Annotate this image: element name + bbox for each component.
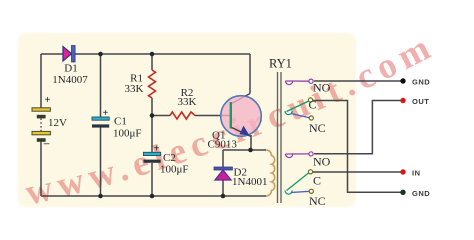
svg-text:GND: GND [412,189,430,198]
junction node: R1 / R2 / C2 [150,113,155,118]
wire: D2 bottom stub [222,180,224,196]
wire: R1 top stub [151,54,153,70]
relay contact group 1: NC terminal circle [309,116,313,120]
relay contact group 1: NO pivot arc [286,81,293,85]
resistor R2 [170,112,195,119]
svg-text:1N4007: 1N4007 [52,74,88,86]
relay coil RY1 [266,150,275,196]
capacitor C2 [144,152,161,163]
wire: left vertical battery top to top rail [40,54,42,108]
wire: OUT terminal to relay NO2 [314,101,401,154]
svg-text:–: – [43,138,50,150]
junction node: ground rail / C1 [98,194,103,199]
terminal GND (top) [400,78,405,83]
junction node: emitter / coil rail [248,148,253,153]
wire: emitter vertical [250,135,252,150]
svg-text:IN: IN [412,169,421,178]
relay contact group 2: green lever to C [287,173,309,191]
wire: C2 branch upper [151,116,153,153]
svg-text:NO: NO [313,155,331,169]
schematic cream background [18,33,356,207]
relay contact group 2: NO pivot arc [286,154,293,158]
relay contact group 1: NO lever [286,80,310,82]
svg-text:100μF: 100μF [160,164,189,176]
junction node: top rail / R1 [150,52,155,57]
svg-text:33K: 33K [178,96,197,108]
relay contact group 1: C terminal circle [308,98,312,102]
svg-text:33K: 33K [125,83,144,95]
wire: battery bottom vertical [40,142,42,197]
wire: C1 branch upper [100,54,102,117]
relay armature bars [277,72,279,203]
wire: C1 branch lower [100,128,102,197]
transistor Q1 C9013 [221,96,262,137]
wire: collector diagonal [232,94,251,104]
svg-text:C: C [309,98,317,112]
wire: C2 branch lower [151,163,153,196]
wire: collector vertical [249,54,251,94]
relay contact group 2: pivot arc lower [285,191,292,195]
svg-text:RY1: RY1 [269,57,292,71]
terminal GND (bottom) [400,190,405,195]
svg-text:C9013: C9013 [208,139,238,151]
terminal OUT [400,98,405,103]
relay contact group 1: pivot arc lower [285,111,292,115]
relay contact group 1: blue lever to NC [291,114,310,118]
wire: base rail right of R2 [195,115,230,117]
svg-text:C1: C1 [114,116,127,128]
relay contact group 1: green lever to C [287,101,309,112]
junction node: ground rail / C2 [150,194,155,199]
relay contact group 2: NC terminal circle [309,189,313,193]
relay contact group 2: NO lever [286,153,310,155]
junction node: top rail / C1 [98,52,103,57]
svg-text:OUT: OUT [412,97,429,106]
relay contact group 2: C terminal circle [308,170,312,174]
resistor R1 [149,70,156,98]
terminal IN [400,169,405,174]
wire: relay NO1 to GND terminal [314,80,401,82]
svg-text:D1: D1 [64,63,77,75]
svg-text:C: C [313,174,321,188]
svg-text:+: + [103,108,109,119]
svg-text:NC: NC [309,194,326,208]
wire: relay C1 contact to lower GND terminal [313,101,402,193]
battery B1 12V [32,108,50,142]
svg-text:NO: NO [313,81,331,95]
wire: base rail left of R2 [152,115,170,117]
watermark www.eleccircuit.com [21,24,441,213]
relay contact group 2: blue lever to NC [291,191,310,192]
wire: relay C2 contact to IN terminal [313,171,402,173]
relay contact group 2: NO terminal circle [309,152,313,156]
svg-text:+: + [44,94,50,106]
wire: D2 top stub [222,150,224,167]
svg-text:GND: GND [412,78,430,87]
svg-text:1N4001: 1N4001 [232,176,267,188]
capacitor C1 [92,117,109,128]
svg-text:NC: NC [309,121,326,135]
wire: R1 bottom stub [151,98,153,116]
svg-text:+: + [154,144,160,155]
diode D2 (flyback) [214,167,232,180]
wire: emitter rail to coil [223,149,266,151]
relay contact group 1: NO terminal circle [309,79,313,83]
svg-text:100μF: 100μF [113,128,142,140]
junction node: ground rail / D2 [221,194,226,199]
diode D1 [63,46,75,63]
svg-text:12V: 12V [48,117,67,129]
svg-text:C2: C2 [163,152,176,164]
wire: bottom ground rail [41,195,266,197]
wire: top rail [41,53,250,55]
